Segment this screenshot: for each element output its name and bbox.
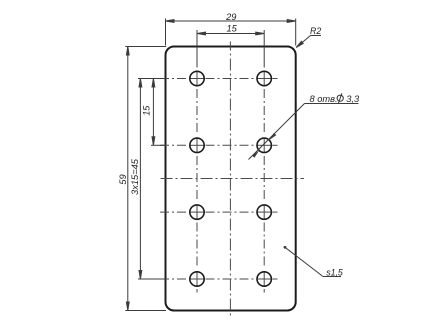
dimension 3x15=45 left — [138, 79, 166, 280]
hole cross segments — [190, 71, 272, 287]
centerline horizontal plate axis — [161, 178, 305, 180]
svg-text:s1,5: s1,5 — [326, 267, 343, 277]
leader R2 — [296, 36, 321, 48]
arrowheads on hole diameter — [269, 133, 276, 140]
svg-text:59: 59 — [118, 174, 128, 184]
hole B1 — [190, 138, 204, 152]
hole D2 — [257, 272, 271, 286]
dimension 15 left — [151, 79, 166, 146]
hole D1 — [190, 272, 204, 286]
svg-text:29: 29 — [225, 12, 236, 22]
dimension 59 left — [125, 47, 166, 311]
leader 8 holes dia 3.3 — [249, 104, 359, 160]
centerline row 1 — [160, 78, 256, 80]
hole A1 — [190, 71, 204, 85]
plate outline — [166, 47, 296, 311]
centerline column 1 — [196, 89, 198, 269]
centerline row 3 — [160, 211, 256, 213]
hole C2 — [257, 205, 271, 219]
svg-text:3,3: 3,3 — [346, 94, 360, 104]
dimension 15 top — [197, 30, 264, 68]
centerline row 4 — [160, 278, 256, 280]
leader s1,5 — [284, 246, 341, 277]
centerline row 2 — [160, 144, 256, 146]
hole C1 — [190, 205, 204, 219]
svg-text:R2: R2 — [310, 26, 321, 36]
svg-text:15: 15 — [142, 105, 152, 116]
dimension 29 top — [166, 19, 296, 46]
centerline vertical plate axis — [229, 42, 231, 318]
svg-text:3x15=45: 3x15=45 — [130, 158, 140, 195]
svg-text:8 отв.: 8 отв. — [310, 94, 338, 104]
hole B2 — [257, 138, 271, 152]
centerline column 2 — [263, 89, 265, 269]
svg-text:15: 15 — [227, 24, 238, 34]
hole A2 — [257, 71, 271, 85]
